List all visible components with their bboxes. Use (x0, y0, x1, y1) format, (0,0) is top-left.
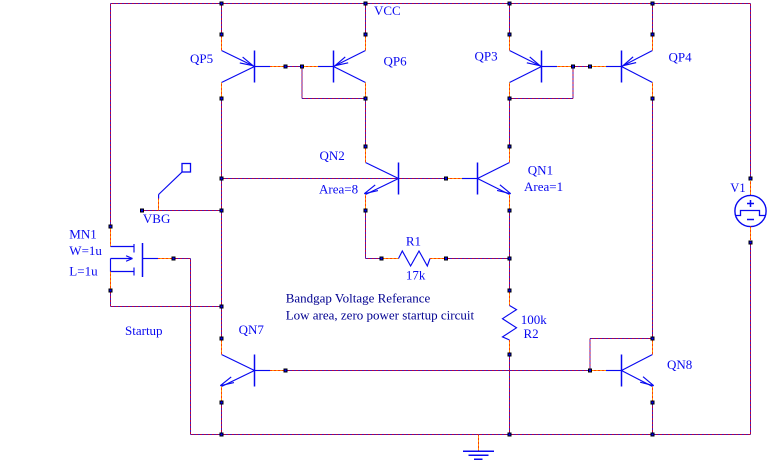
svg-text:VBG: VBG (143, 211, 170, 226)
svg-text:Low area, zero power startup c: Low area, zero power startup circuit (286, 308, 475, 323)
svg-text:17k: 17k (406, 267, 426, 282)
svg-text:Area=8: Area=8 (319, 182, 358, 197)
svg-text:Bandgap Voltage Referance: Bandgap Voltage Referance (286, 291, 431, 306)
svg-text:QP5: QP5 (190, 51, 213, 66)
svg-text:VCC: VCC (374, 3, 401, 18)
svg-text:QP4: QP4 (669, 50, 693, 65)
svg-text:V1: V1 (730, 181, 745, 195)
svg-text:QP6: QP6 (384, 54, 408, 69)
svg-text:Startup: Startup (125, 323, 163, 338)
svg-text:R2: R2 (524, 326, 539, 341)
svg-text:100k: 100k (521, 312, 548, 327)
svg-text:QP3: QP3 (475, 49, 498, 64)
svg-text:Area=1: Area=1 (524, 179, 563, 194)
svg-text:MN1: MN1 (69, 227, 96, 242)
svg-text:L=1u: L=1u (69, 263, 98, 278)
svg-text:QN7: QN7 (239, 322, 265, 337)
svg-text:QN8: QN8 (667, 357, 692, 372)
svg-text:W=1u: W=1u (69, 243, 102, 258)
svg-text:QN1: QN1 (528, 163, 553, 178)
svg-text:QN2: QN2 (320, 148, 345, 163)
svg-text:R1: R1 (406, 234, 421, 249)
